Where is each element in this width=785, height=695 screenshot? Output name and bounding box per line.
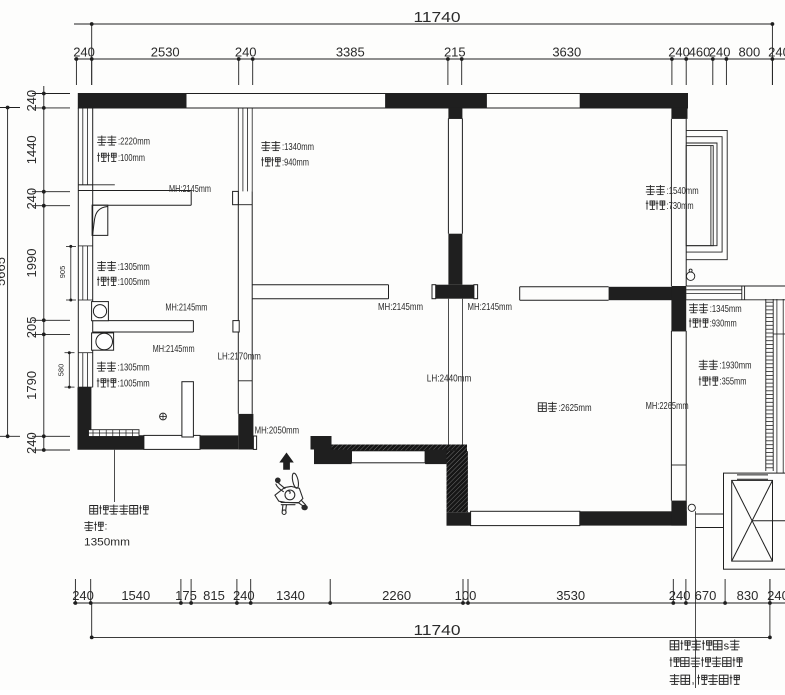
svg-text::1930mm: :1930mm: [720, 360, 752, 372]
svg-text:MH:2050mm: MH:2050mm: [255, 425, 300, 437]
small dim 905: [58, 245, 76, 302]
bay window (1540): [686, 130, 727, 259]
svg-text:830: 830: [737, 588, 759, 603]
wall mid horizontal left of T: [252, 285, 388, 299]
wall 2 T bar black: [436, 285, 474, 299]
svg-text:240: 240: [233, 588, 255, 603]
svg-text:LH:2170mm: LH:2170mm: [218, 351, 261, 363]
svg-text:s: s: [724, 641, 730, 653]
elevator shaft box: [724, 473, 785, 569]
svg-text:MH:2145mm: MH:2145mm: [468, 301, 513, 313]
wall 2 opening lines (LH2440): [448, 299, 462, 445]
svg-text:11740: 11740: [414, 10, 461, 26]
svg-text:5665: 5665: [0, 257, 8, 286]
wall 1 vertical with notches: [233, 191, 253, 414]
wall A bathroom bottom: [93, 321, 194, 332]
dimension left outer 5665: [0, 106, 20, 439]
svg-text::2625mm: :2625mm: [559, 402, 592, 414]
door leaf bathroom: [92, 205, 108, 235]
label cenggao 2625: [538, 402, 591, 414]
svg-text::1005mm: :1005mm: [118, 276, 150, 288]
wall mid horizontal black part: [609, 287, 687, 300]
svg-text::1340mm: :1340mm: [282, 141, 314, 153]
right boundary lines: [773, 299, 785, 473]
svg-text:LH:2440mm: LH:2440mm: [427, 373, 472, 385]
svg-text:215: 215: [444, 45, 466, 60]
floor drain symbol: [160, 413, 167, 420]
svg-text:1790: 1790: [24, 371, 39, 400]
svg-text::100mm: :100mm: [118, 152, 145, 164]
label lidi 355: [699, 376, 747, 388]
svg-text:240: 240: [669, 588, 691, 603]
bottom wall black right: [580, 511, 687, 525]
svg-text::940mm: :940mm: [282, 157, 309, 169]
wall left with three windows: [78, 108, 115, 387]
step block C: [425, 449, 456, 464]
window strip right (1345): [686, 286, 785, 300]
wall top-right corner pier: [671, 108, 687, 119]
svg-text:3630: 3630: [552, 45, 581, 60]
dimension left column: [24, 86, 70, 454]
bottom wall opening (kitchen): [144, 435, 200, 449]
svg-text::1305mm: :1305mm: [118, 261, 150, 273]
svg-text::930mm: :930mm: [710, 318, 737, 330]
human figure sketch: [275, 473, 308, 515]
svg-text:205: 205: [24, 316, 39, 338]
svg-text::1305mm: :1305mm: [118, 362, 150, 374]
svg-text::: :: [105, 521, 108, 533]
svg-text:240: 240: [24, 188, 39, 210]
svg-text:1340: 1340: [276, 588, 305, 603]
radiator ladder window (1930): [766, 299, 773, 471]
entrance step block A: [311, 436, 332, 450]
wall mid horizontal white part: [520, 287, 609, 300]
svg-text:460: 460: [689, 45, 711, 60]
label chuanggao 1340: [261, 141, 314, 153]
svg-text:905: 905: [58, 266, 67, 279]
wall right upper white: [671, 119, 686, 286]
svg-text:175: 175: [175, 588, 197, 603]
hatched strip horizontal: [332, 445, 468, 452]
wall 2 top black: [448, 108, 462, 119]
half-height counter strip: [89, 430, 140, 437]
svg-text:580: 580: [57, 364, 66, 377]
kitchen stub wall: [182, 382, 194, 437]
svg-text:1440: 1440: [24, 135, 39, 164]
svg-text:11740: 11740: [414, 623, 461, 639]
fixture washing machine: [92, 302, 109, 321]
svg-text:2260: 2260: [382, 588, 411, 603]
svg-text:240: 240: [72, 588, 94, 603]
T bar caps: [432, 285, 478, 299]
note s-bend pipe text: [670, 640, 742, 687]
svg-text::1005mm: :1005mm: [118, 378, 150, 390]
leader half-height wall: [114, 450, 116, 502]
label lidi 100: [97, 152, 145, 164]
svg-text:800: 800: [739, 45, 761, 60]
hatched bar vertical: [447, 451, 468, 512]
svg-text:,: ,: [692, 675, 695, 687]
wall right black pier mid: [671, 286, 686, 331]
dimension top total 11740: [74, 10, 774, 85]
label chuanggao 1305 b: [97, 362, 150, 374]
wall 1 black base: [238, 414, 253, 450]
wall right bottom black corner: [671, 501, 686, 526]
svg-text:MH:2265mm: MH:2265mm: [646, 400, 689, 412]
dimension bottom row: [72, 579, 785, 605]
svg-text:MH:2145mm: MH:2145mm: [378, 301, 423, 313]
svg-text::355mm: :355mm: [720, 376, 747, 388]
label chuanggao 2220: [97, 136, 150, 148]
label chuanggao 1305 a: [97, 261, 150, 273]
svg-text:670: 670: [695, 588, 717, 603]
svg-text:240: 240: [24, 90, 39, 112]
svg-text:240: 240: [668, 45, 690, 60]
bottom wall black pier: [200, 435, 238, 449]
wall top band with windows: [78, 94, 687, 109]
leader drain note: [695, 511, 697, 688]
svg-text::730mm: :730mm: [667, 200, 694, 212]
svg-text::2220mm: :2220mm: [118, 136, 150, 148]
note half-height wall text: [84, 505, 148, 549]
wall right lower white: [671, 331, 686, 501]
bottom wall window band: [471, 511, 580, 525]
small dim 580: [57, 351, 75, 388]
label lidi 930: [689, 318, 737, 330]
gas riser symbol: [686, 269, 694, 280]
svg-text:100: 100: [455, 588, 477, 603]
svg-text:MH:2145mm: MH:2145mm: [169, 183, 211, 195]
label chuanggao 1345: [689, 303, 742, 315]
svg-text:240: 240: [235, 45, 257, 60]
label lidi 1005 b: [97, 378, 150, 390]
dimension top row: [73, 45, 785, 86]
step block D: [447, 512, 471, 525]
wall bathroom top band: [78, 191, 191, 206]
svg-text:240: 240: [709, 45, 731, 60]
half wall window: [352, 451, 426, 463]
svg-text:1540: 1540: [121, 588, 150, 603]
svg-text:MH:2145mm: MH:2145mm: [153, 343, 195, 355]
label lidi 1005 a: [97, 276, 150, 288]
label chuanggao 1540: [646, 185, 699, 197]
svg-text::1540mm: :1540mm: [667, 185, 699, 197]
wall 2 black middle: [448, 234, 462, 285]
svg-text:3530: 3530: [556, 588, 585, 603]
svg-text::1345mm: :1345mm: [710, 303, 742, 315]
wall 2 upper white: [448, 119, 462, 234]
label lidi 730: [646, 200, 694, 212]
svg-text:815: 815: [203, 588, 225, 603]
svg-text:240: 240: [768, 45, 785, 60]
svg-text:1350mm: 1350mm: [84, 537, 130, 549]
fixture toilet: [92, 333, 114, 350]
window top (1340) on wall 1: [238, 108, 252, 191]
entrance arrow: [279, 453, 294, 470]
svg-text:240: 240: [73, 45, 95, 60]
svg-text:MH:2145mm: MH:2145mm: [165, 302, 207, 314]
step block B: [314, 450, 352, 465]
wall left bottom black L: [77, 387, 143, 450]
label lidi 940: [261, 157, 309, 169]
label chuanggao 1930: [699, 360, 752, 372]
svg-text:240: 240: [24, 432, 39, 454]
svg-text:3385: 3385: [336, 45, 365, 60]
svg-text:2530: 2530: [151, 45, 180, 60]
connector wall to shaft: [688, 504, 723, 527]
dimension bottom total 11740: [90, 579, 772, 639]
wall 1 white cap: [253, 436, 256, 449]
svg-text:1990: 1990: [24, 249, 39, 278]
